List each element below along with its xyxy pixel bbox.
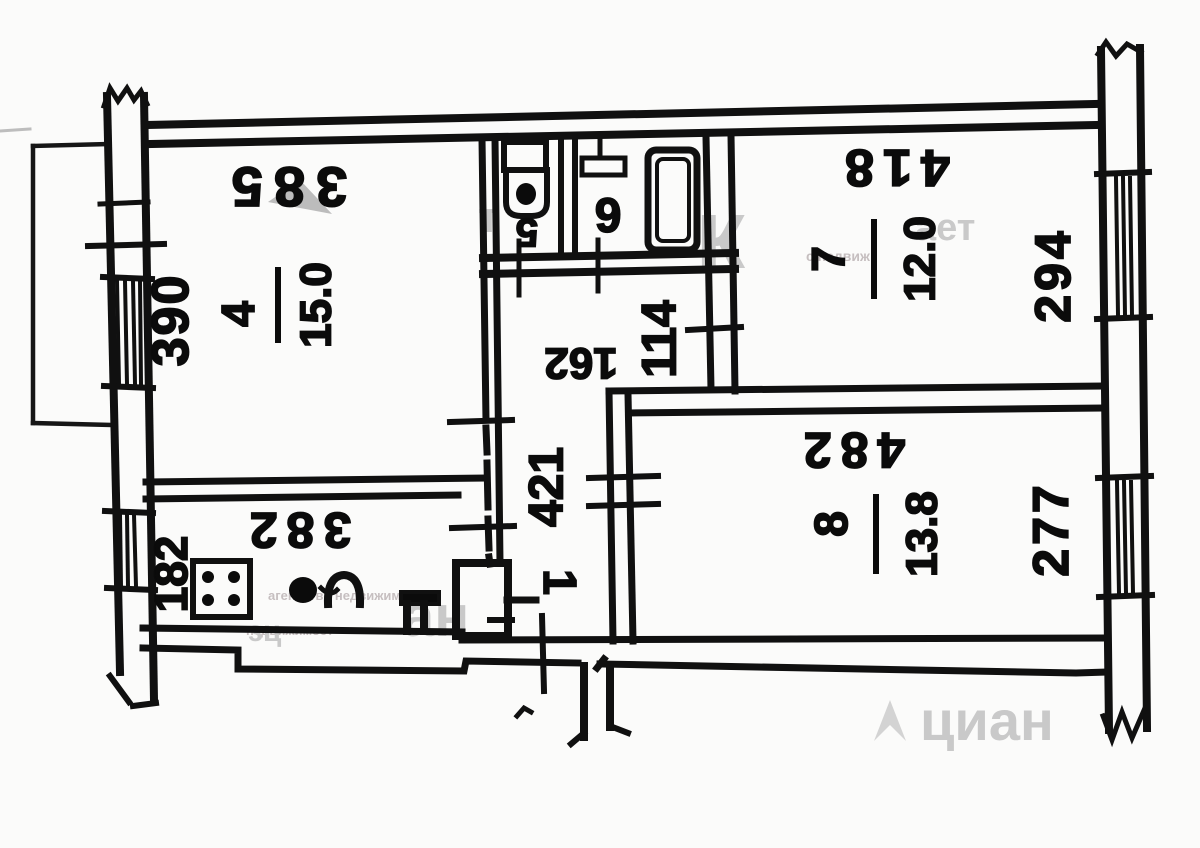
entrance tick — [542, 616, 544, 691]
kitchen sink — [401, 592, 439, 604]
room 4 fraction — [212, 262, 341, 348]
svg-text:390: 390 — [142, 274, 200, 367]
svg-text:382: 382 — [241, 502, 351, 558]
interior wall A (room4/hall, kitchen/hall) — [482, 139, 500, 564]
left wall top break zigzag — [104, 88, 147, 106]
wall A ticks — [450, 420, 512, 422]
window room4 left wall — [103, 277, 153, 388]
svg-text:8: 8 — [805, 511, 857, 537]
kitchen vent/cupboard — [456, 563, 508, 636]
vestibule below entrance — [584, 666, 610, 737]
kitchen stove — [193, 561, 250, 617]
kitchen room label 3 (handwritten, upside down) — [289, 577, 317, 603]
right outer wall — [1101, 48, 1147, 730]
washbasin room6 — [598, 140, 603, 158]
kitchen door jamb marks — [507, 597, 536, 604]
svg-text:13.8: 13.8 — [898, 491, 947, 577]
svg-text:циан: циан — [920, 689, 1054, 752]
svg-text:385: 385 — [221, 156, 347, 219]
bottom walls — [143, 628, 1108, 673]
watermark cian logo bottom right — [874, 689, 1054, 752]
svg-text:4: 4 — [212, 301, 264, 327]
outer left wall — [107, 96, 154, 700]
svg-text:7: 7 — [802, 246, 854, 272]
svg-text:482: 482 — [795, 422, 905, 478]
svg-text:6: 6 — [595, 188, 622, 241]
room8 left wall — [609, 391, 633, 641]
svg-text:12.0: 12.0 — [896, 216, 945, 302]
stray ink mark — [517, 708, 531, 716]
watermark big letters row1 — [268, 178, 975, 290]
left wall dimension ticks — [100, 202, 148, 204]
left wall bottom break — [110, 676, 129, 702]
bathroom wall ticks — [517, 241, 522, 295]
svg-text:294: 294 — [1025, 227, 1081, 322]
window room8 right wall — [1098, 476, 1152, 597]
room8 top wall — [609, 386, 1101, 413]
partition WC/bath — [561, 141, 575, 255]
room 7 fraction — [802, 216, 945, 302]
top outer wall double line — [146, 104, 1098, 144]
svg-text:15.0: 15.0 — [292, 262, 341, 348]
svg-text:182: 182 — [145, 536, 197, 613]
svg-text:418: 418 — [836, 138, 950, 196]
faint pencil dash top-left edge — [0, 129, 30, 131]
balcony outline left — [33, 144, 110, 425]
svg-text:1: 1 — [534, 569, 586, 595]
right wall top break — [1098, 42, 1141, 56]
bathroom bottom wall — [483, 253, 735, 274]
svg-text:114: 114 — [634, 300, 687, 378]
watermark small text rows — [246, 248, 871, 649]
svg-text:162: 162 — [544, 339, 617, 388]
svg-text:5: 5 — [516, 210, 538, 254]
svg-text:277: 277 — [1023, 481, 1079, 576]
window kitchen left wall — [105, 511, 155, 590]
right wall bottom break — [1103, 708, 1145, 740]
kitchen top wall — [146, 478, 484, 499]
WC tank + bowl — [504, 142, 547, 216]
interior wall B (hall/room7) — [706, 135, 735, 391]
window room7 right wall — [1097, 172, 1150, 319]
room 8 fraction — [805, 491, 947, 577]
svg-text:421: 421 — [521, 447, 574, 527]
bathtub — [648, 150, 697, 250]
